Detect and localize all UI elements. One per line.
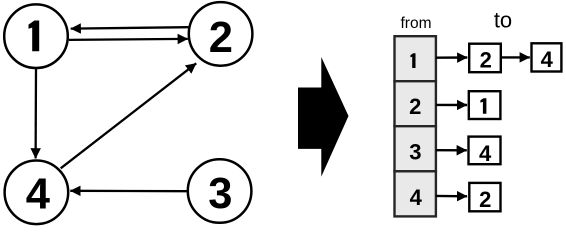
table cell from-4 — [395, 171, 436, 216]
svg-text:2: 2 — [480, 47, 492, 72]
block arrow (transform) — [298, 57, 349, 177]
svg-text:4: 4 — [479, 141, 492, 166]
wire list arrow row4 — [436, 195, 467, 198]
svg-text:2: 2 — [479, 187, 491, 212]
wire list arrow row1 a — [436, 56, 467, 59]
node 4 circle — [5, 161, 69, 225]
to box row1 value 2 — [469, 44, 501, 72]
wire edge 2->1 (top) — [71, 27, 189, 28]
table cell from-2 — [395, 81, 436, 126]
node 1 circle — [4, 4, 68, 68]
wire edge 1->4 (vertical) — [34, 69, 37, 159]
svg-text:to: to — [494, 8, 512, 33]
to box row2 value 1 — [469, 91, 501, 119]
to box row2 digit 1 — [480, 98, 486, 114]
svg-text:2: 2 — [409, 94, 421, 119]
wire list arrow row2 — [436, 104, 467, 106]
svg-text:4: 4 — [541, 47, 554, 72]
svg-text:4: 4 — [26, 170, 50, 218]
to box row4 value 2 — [469, 183, 500, 211]
node 2 circle — [189, 2, 253, 66]
to box row1 value 4 — [532, 43, 562, 71]
svg-text:2: 2 — [209, 14, 233, 62]
wire list arrow row1 b — [502, 56, 530, 58]
svg-text:from: from — [401, 15, 432, 32]
svg-text:4: 4 — [410, 185, 423, 210]
svg-text:3: 3 — [208, 170, 232, 218]
table cell from-1 — [395, 36, 436, 81]
svg-text:3: 3 — [409, 139, 421, 164]
wire edge 1->2 (bottom) — [69, 39, 188, 40]
node 3 circle — [188, 159, 252, 223]
wire list arrow row3 — [436, 149, 467, 152]
to box row3 value 4 — [469, 137, 501, 165]
table cell from-3 — [395, 126, 436, 171]
node 1 label — [29, 21, 40, 52]
table cell from-1 value 1 — [410, 53, 415, 68]
wire edge 4->2 (diagonal) — [61, 63, 197, 168]
wire edge 3->4 (horizontal) — [70, 190, 187, 193]
